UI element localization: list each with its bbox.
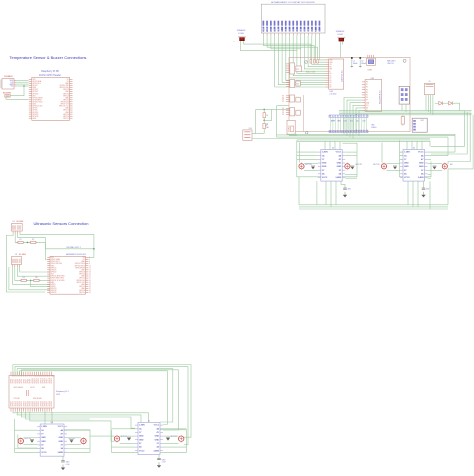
svg-text:VDD: VDD [330, 62, 333, 64]
svg-text:LCD16X2: LCD16X2 [330, 94, 337, 96]
svg-text:GPIO22: GPIO22 [51, 272, 57, 274]
svg-text:P6: P6 [366, 97, 368, 99]
svg-text:P2: P2 [282, 112, 284, 114]
wire pot bottom [263, 129, 265, 134]
wire right bundle [339, 110, 472, 112]
svg-text:D2: D2 [293, 29, 295, 31]
svg-text:GPIO5: GPIO5 [21, 379, 23, 384]
svg-text:GPIO10 MOSI SPI0: GPIO10 MOSI SPI0 [51, 276, 65, 278]
svg-text:GND: GND [419, 166, 424, 168]
resistor network RN1 [296, 66, 302, 72]
motor M3 [114, 436, 119, 441]
wire U2 vcc [13, 267, 50, 285]
svg-text:GND: GND [42, 387, 45, 389]
sensor U$2 DS18B20 [0, 80, 2, 89]
wire top bus to driver2 [13, 365, 191, 438]
wire icsp drops [401, 104, 403, 111]
svg-text:VCC2: VCC2 [139, 450, 145, 452]
svg-text:3V3: 3V3 [33, 79, 36, 81]
svg-text:1,2EN: 1,2EN [322, 152, 328, 154]
svg-text:P0: P0 [366, 82, 368, 84]
svg-text:GPIO11: GPIO11 [34, 378, 36, 383]
wire inter-driver link [90, 435, 114, 437]
capacitor C9 [311, 167, 315, 170]
svg-text:GPIO0: GPIO0 [11, 379, 13, 384]
svg-text:GPIO14: GPIO14 [40, 378, 42, 383]
svg-text:D4: D4 [330, 82, 332, 84]
svg-text:DCJACK: DCJACK [287, 124, 290, 132]
svg-text:GPIO17: GPIO17 [33, 89, 39, 91]
svg-text:GPIO12: GPIO12 [36, 378, 38, 383]
svg-text:GND: GND [41, 441, 46, 443]
svg-text:3V3: 3V3 [33, 95, 36, 97]
wire motor M4 to U5 [163, 435, 179, 437]
junction buzzer net [23, 85, 25, 87]
svg-text:GPIO16: GPIO16 [63, 114, 69, 116]
wire driver U3 bottom drops [407, 181, 409, 205]
wire driver U2 bottom drops [325, 181, 327, 205]
svg-text:UNO R3: UNO R3 [387, 63, 393, 65]
svg-text:P3: P3 [282, 114, 284, 116]
svg-text:LCD Port 2.0: LCD Port 2.0 [341, 70, 344, 82]
svg-text:GPIO31: GPIO31 [34, 401, 36, 406]
resistor network RN3 [296, 97, 301, 102]
svg-text:3,4EN: 3,4EN [153, 449, 159, 452]
motor M4 [179, 436, 184, 441]
connector SV1 [290, 63, 295, 74]
wire U2 aux loop [9, 267, 50, 290]
svg-text:VCC1: VCC1 [154, 425, 160, 427]
wire U3 left pin feeds [400, 151, 404, 153]
connector ICSP [399, 86, 409, 104]
svg-text:D12: D12 [361, 114, 363, 117]
svg-text:GND: GND [419, 163, 424, 165]
resistor R9 [310, 60, 312, 64]
crystal Q1 [367, 58, 376, 65]
wire buzzer gnd [6, 97, 29, 99]
svg-text:GND: GND [404, 163, 409, 165]
resistor R11 [317, 60, 319, 64]
svg-text:Temperature Sensor & Buzzer Co: Temperature Sensor & Buzzer Connections [10, 55, 87, 60]
svg-text:R1: R1 [19, 239, 21, 241]
svg-text:GPIO1: GPIO1 [13, 379, 15, 384]
svg-text:ALPHANUMERIC LCD DISPLAY 16X2: ALPHANUMERIC LCD DISPLAY 16X2 HD44780 [271, 1, 315, 4]
wire motor M7 to U3 [387, 162, 400, 164]
svg-text:R3: R3 [23, 277, 25, 279]
wire LCD to LCD-port [293, 35, 325, 75]
svg-text:D6: D6 [308, 29, 310, 31]
resistor R5 [401, 117, 404, 125]
svg-text:D4: D4 [340, 115, 342, 117]
svg-text:GPIO33: GPIO33 [38, 401, 40, 406]
svg-text:GPIO28: GPIO28 [28, 401, 30, 406]
connector SV3 [290, 95, 295, 102]
svg-text:D2: D2 [330, 78, 332, 80]
connector J3 Raspberry Pi header (horizontal) [9, 376, 54, 409]
svg-text:GPIO8: GPIO8 [28, 379, 30, 384]
resistor R2 [31, 241, 36, 243]
svg-text:GPIO27: GPIO27 [33, 91, 39, 93]
svg-text:RW: RW [278, 28, 280, 31]
svg-text:1A: 1A [322, 154, 325, 157]
svg-text:U$7: U$7 [421, 120, 424, 122]
capacitor C10 [351, 167, 355, 170]
resistor R4 [34, 279, 39, 281]
wire U1 echo [18, 234, 50, 260]
svg-text:TXD RXD: TXD RXD [14, 398, 20, 400]
svg-text:GPIO23: GPIO23 [63, 93, 69, 95]
motor M5 [299, 164, 304, 169]
connector SV4 [290, 108, 295, 116]
svg-text:GPIO17: GPIO17 [47, 378, 49, 383]
svg-text:GPIO10: GPIO10 [32, 378, 34, 383]
svg-text:8 OHM: 8 OHM [238, 33, 244, 35]
resistor network RN4 [296, 110, 301, 115]
resistor network RN2 [296, 81, 301, 86]
svg-text:VCC1: VCC1 [336, 152, 342, 154]
svg-text:GPIO9 MISO: GPIO9 MISO [33, 100, 43, 102]
svg-text:R4: R4 [35, 277, 37, 279]
svg-text:GPIO26: GPIO26 [23, 401, 25, 406]
svg-text:P1: P1 [282, 110, 284, 112]
wire U3 right pin feeds [428, 151, 456, 153]
svg-text:D10: D10 [363, 121, 366, 123]
svg-text:GPIO11 SCLK SPI0: GPIO11 SCLK SPI0 [51, 280, 65, 282]
svg-text:GPIO7 CE1: GPIO7 CE1 [61, 104, 69, 106]
wire motor M1 to U4 [24, 437, 38, 439]
svg-text:DS18B20: DS18B20 [4, 76, 13, 78]
svg-text:GPIO15: GPIO15 [42, 378, 44, 383]
svg-text:GPIO27: GPIO27 [51, 269, 57, 271]
svg-text:GPIO20: GPIO20 [79, 292, 85, 294]
svg-text:GPIO16: GPIO16 [79, 290, 85, 292]
svg-text:P2: P2 [282, 99, 284, 101]
svg-text:P5: P5 [366, 95, 368, 97]
svg-text:U$6: U$6 [371, 124, 374, 126]
junction divider mid [263, 120, 265, 122]
svg-text:GPIO32: GPIO32 [36, 401, 38, 406]
svg-text:GPIO21: GPIO21 [13, 401, 15, 406]
wire U1 gnd to net [20, 234, 94, 249]
svg-text:D13: D13 [364, 114, 366, 117]
svg-text:D13: D13 [344, 121, 347, 123]
svg-text:D1: D1 [289, 29, 291, 31]
svg-text:D9: D9 [353, 115, 355, 117]
wire R3-R4 [26, 279, 33, 281]
wire R1-R2 [23, 241, 30, 243]
svg-text:GND: GND [59, 437, 64, 439]
capacitor C12 [433, 167, 437, 170]
svg-text:GPIO17: GPIO17 [51, 267, 57, 269]
resistor R10 [313, 60, 315, 64]
svg-text:GPIO12: GPIO12 [79, 286, 85, 288]
svg-text:GPIO22: GPIO22 [33, 93, 39, 95]
svg-text:1,2EN: 1,2EN [41, 426, 47, 428]
wire driver U2 loop [297, 140, 357, 176]
svg-text:Shield PCF 2.0: Shield PCF 2.0 [380, 90, 382, 104]
svg-text:D5: D5 [304, 29, 306, 31]
svg-text:GND: GND [59, 441, 64, 443]
svg-text:GPIO4: GPIO4 [33, 85, 38, 87]
svg-text:GPIO8 CE0: GPIO8 CE0 [61, 102, 69, 104]
svg-text:P2: P2 [366, 87, 368, 89]
svg-text:GPIO19: GPIO19 [33, 114, 39, 116]
wire R2 to keypad net [36, 242, 94, 257]
svg-text:J1: J1 [429, 81, 431, 83]
svg-text:3V3: 3V3 [51, 257, 54, 259]
svg-text:D1: D1 [330, 75, 332, 77]
wire bottom bus [13, 412, 149, 422]
motor M7 [381, 164, 386, 169]
svg-text:D10: D10 [356, 114, 358, 117]
capacitor C4 [127, 438, 131, 441]
wire driver U3 top feeds [406, 141, 408, 149]
svg-text:MOTOR: MOTOR [356, 164, 363, 166]
svg-text:RS: RS [330, 66, 332, 68]
svg-text:INT: INT [366, 108, 368, 110]
wire motor M2 to U4 [67, 437, 81, 439]
svg-text:GND: GND [337, 166, 342, 168]
svg-text:HC-SR04: HC-SR04 [19, 254, 26, 256]
wire driver U3 loop [381, 143, 383, 163]
capacitor C5 [166, 438, 170, 441]
svg-text:MOTOR: MOTOR [69, 438, 76, 440]
svg-text:GPIO12: GPIO12 [63, 110, 69, 112]
svg-text:GND: GND [337, 163, 342, 165]
svg-text:1,2EN: 1,2EN [404, 152, 410, 154]
svg-text:SPEAKER: SPEAKER [237, 29, 246, 32]
capacitor C2 [70, 440, 74, 443]
svg-text:100nF: 100nF [361, 63, 366, 65]
capacitor C7 [351, 57, 353, 59]
svg-text:GPIO21: GPIO21 [63, 118, 69, 120]
capacitor C8 [359, 57, 361, 59]
motor M2 [81, 438, 86, 443]
svg-text:P3: P3 [282, 101, 284, 103]
svg-text:x: x [234, 41, 235, 43]
svg-text:GPIO3 SCL: GPIO3 SCL [33, 83, 41, 85]
ground U2 [341, 181, 345, 188]
svg-text:D14: D14 [366, 114, 368, 117]
svg-text:GPIO13: GPIO13 [33, 112, 39, 114]
svg-text:GPIO6: GPIO6 [51, 286, 56, 288]
svg-text:GPIO6: GPIO6 [23, 379, 25, 384]
wire speaker LS2 [340, 41, 342, 57]
diode D2 [449, 101, 453, 105]
svg-text:D3: D3 [297, 29, 299, 31]
svg-text:P4: P4 [366, 92, 368, 94]
wire motor M8 to U3 [428, 162, 443, 164]
ground U3 [423, 192, 425, 195]
power jack X2 [287, 120, 295, 134]
svg-text:MOTOR: MOTOR [25, 438, 32, 440]
svg-text:VCC2: VCC2 [322, 177, 328, 179]
svg-text:0.1uF: 0.1uF [66, 464, 70, 466]
svg-text:GPIO13: GPIO13 [38, 378, 40, 383]
motor M8 [442, 164, 447, 169]
svg-text:GPIO20: GPIO20 [11, 401, 13, 406]
svg-text:3,4EN: 3,4EN [418, 176, 424, 179]
svg-text:16MHz: 16MHz [368, 70, 373, 72]
svg-text:GPIO13: GPIO13 [51, 288, 57, 290]
svg-text:GND: GND [155, 439, 160, 441]
svg-text:GPIO29: GPIO29 [30, 401, 32, 406]
svg-text:GPIO15 RXD: GPIO15 RXD [59, 87, 69, 89]
svg-text:GPIO2: GPIO2 [15, 379, 17, 384]
svg-text:Raspberry Pi 4B: Raspberry Pi 4B [41, 70, 59, 73]
wire outer loop [276, 106, 278, 135]
svg-text:U$4: U$4 [330, 91, 333, 93]
svg-text:GND: GND [139, 439, 144, 441]
svg-text:D3: D3 [330, 80, 332, 82]
svg-text:GPIO5: GPIO5 [51, 284, 56, 286]
resistor R3 [21, 279, 26, 281]
wire motor M3 to U5 [120, 435, 135, 437]
ground U3 [423, 181, 425, 188]
capacitor C6 + ground U5 [158, 455, 160, 459]
svg-text:GPIO9: GPIO9 [30, 379, 32, 384]
svg-text:VSS: VSS [330, 60, 333, 62]
potentiometer R7 [263, 123, 266, 128]
svg-text:GPIO3: GPIO3 [17, 379, 19, 384]
svg-text:R8: R8 [266, 127, 268, 129]
junction divider2 [30, 280, 32, 282]
svg-text:VCC1: VCC1 [418, 152, 424, 154]
wire motor M6 to U2 [344, 162, 346, 164]
svg-text:R1: R1 [297, 69, 299, 71]
svg-text:MOTOR: MOTOR [373, 164, 380, 166]
wire U2 echo [17, 267, 50, 276]
junction divider [27, 242, 29, 244]
svg-text:GPIO26: GPIO26 [33, 116, 39, 118]
svg-text:GPIO14 TXD0: GPIO14 TXD0 [75, 263, 85, 265]
svg-text:GPIO38: GPIO38 [49, 401, 51, 406]
svg-text:GPIO22: GPIO22 [15, 401, 17, 406]
svg-text:GPIO19: GPIO19 [51, 290, 57, 292]
svg-text:D5: D5 [343, 115, 345, 117]
svg-text:U1: U1 [13, 221, 15, 223]
svg-text:D1: D1 [333, 115, 335, 117]
motor M1 [18, 438, 23, 443]
svg-text:GND: GND [41, 437, 46, 439]
svg-text:D12: D12 [350, 121, 353, 123]
junction divider top [263, 109, 265, 111]
capacitor C3 + ground U4 [62, 456, 64, 461]
svg-text:GPIO11 SCLK: GPIO11 SCLK [33, 102, 44, 104]
svg-text:GPIO7: GPIO7 [25, 379, 27, 384]
svg-text:GPIO37: GPIO37 [47, 401, 49, 406]
svg-text:D5: D5 [330, 84, 332, 86]
ic U$7 [412, 118, 427, 132]
svg-text:GND: GND [404, 166, 409, 168]
svg-text:D11: D11 [359, 114, 361, 117]
svg-text:GPIO36: GPIO36 [45, 401, 47, 406]
svg-text:GPIO18: GPIO18 [49, 378, 51, 383]
svg-text:VCC1: VCC1 [58, 426, 64, 428]
svg-text:KEYPAD GPIO 1: KEYPAD GPIO 1 [67, 246, 81, 249]
svg-text:U4: U4 [51, 422, 53, 424]
ground U2 [344, 192, 346, 195]
svg-text:GPIO0 ID_SD: GPIO0 ID_SD [33, 106, 44, 108]
svg-text:GPIO27: GPIO27 [25, 401, 27, 406]
svg-text:U2: U2 [15, 254, 17, 256]
wire U2 gnd [20, 267, 50, 272]
wire LCD staircase [275, 35, 326, 87]
svg-text:GPIO18 PCM: GPIO18 PCM [75, 267, 85, 269]
svg-text:D7: D7 [312, 29, 314, 31]
svg-text:SPEAKER: SPEAKER [336, 30, 345, 33]
svg-text:40-Pin GPIO Header: 40-Pin GPIO Header [39, 74, 61, 77]
wire driver2 row stubs [112, 428, 136, 430]
capacitor C1 [30, 440, 34, 443]
svg-text:GPIO10 MOSI: GPIO10 MOSI [33, 97, 44, 99]
svg-text:Ultrasonic Sensors Connection: Ultrasonic Sensors Connection [34, 221, 89, 226]
svg-text:VCC2: VCC2 [41, 452, 47, 454]
resistor R6 [263, 109, 265, 112]
svg-text:X1-2: X1-2 [249, 128, 253, 130]
svg-text:GPIO7 CE1: GPIO7 CE1 [77, 282, 85, 284]
wire U1 vcc loop [6, 234, 45, 293]
svg-text:VDD: VDD [267, 27, 269, 32]
svg-text:GPIO35: GPIO35 [42, 401, 44, 406]
svg-text:GPIO25: GPIO25 [79, 278, 85, 280]
svg-text:SCL: SCL [366, 105, 369, 107]
wire R4 out [39, 279, 50, 281]
svg-text:P1: P1 [366, 84, 368, 86]
svg-text:D7: D7 [348, 115, 350, 117]
svg-text:R2: R2 [297, 84, 299, 86]
svg-text:3,4EN: 3,4EN [57, 451, 63, 454]
svg-text:GPIO26: GPIO26 [51, 292, 57, 294]
svg-text:GPIO1 ID_SC: GPIO1 ID_SC [59, 106, 70, 108]
svg-text:GPIO: GPIO [56, 394, 61, 396]
svg-text:Raspberry Pi 4: Raspberry Pi 4 [56, 390, 69, 393]
svg-text:GPIO39: GPIO39 [51, 401, 53, 406]
motor M6 [345, 164, 350, 169]
module U$3 robot shield board [289, 58, 410, 132]
svg-text:GPIO18: GPIO18 [63, 89, 69, 91]
svg-text:BUZZER: BUZZER [3, 93, 12, 95]
svg-text:D6: D6 [330, 87, 332, 89]
svg-text:GPIO15 RXD0: GPIO15 RXD0 [75, 265, 85, 267]
svg-text:GPIO8 CE0: GPIO8 CE0 [77, 280, 85, 282]
resistor R1 [18, 241, 23, 243]
wire U2 trig [15, 267, 21, 280]
wire driver2 outer loop [112, 430, 187, 453]
wire LCD bus horizontals [263, 35, 314, 59]
svg-text:D8: D8 [351, 115, 353, 117]
svg-text:D3: D3 [338, 115, 340, 117]
svg-text:GPIO24: GPIO24 [63, 95, 69, 97]
wire X1 to divider [252, 133, 264, 135]
svg-text:GND: GND [322, 163, 327, 165]
svg-text:D0: D0 [330, 73, 332, 75]
svg-text:GPIO18 GND: GPIO18 GND [33, 398, 42, 400]
wire speaker LS1 [244, 41, 311, 60]
svg-text:1k: 1k [266, 115, 268, 117]
wire motor M5 to U2 [304, 162, 318, 164]
svg-text:D6: D6 [346, 115, 348, 117]
svg-text:3V3 5V: 3V3 5V [30, 387, 35, 389]
connector SV2 [290, 80, 295, 88]
svg-text:D0: D0 [285, 29, 287, 31]
svg-text:2A: 2A [322, 172, 325, 175]
wire driver U2 top feeds [324, 141, 326, 149]
svg-text:0.1uF: 0.1uF [162, 462, 166, 464]
svg-text:P7: P7 [366, 100, 368, 102]
capacitor C11 [393, 167, 397, 170]
wire diode chain [435, 102, 439, 104]
